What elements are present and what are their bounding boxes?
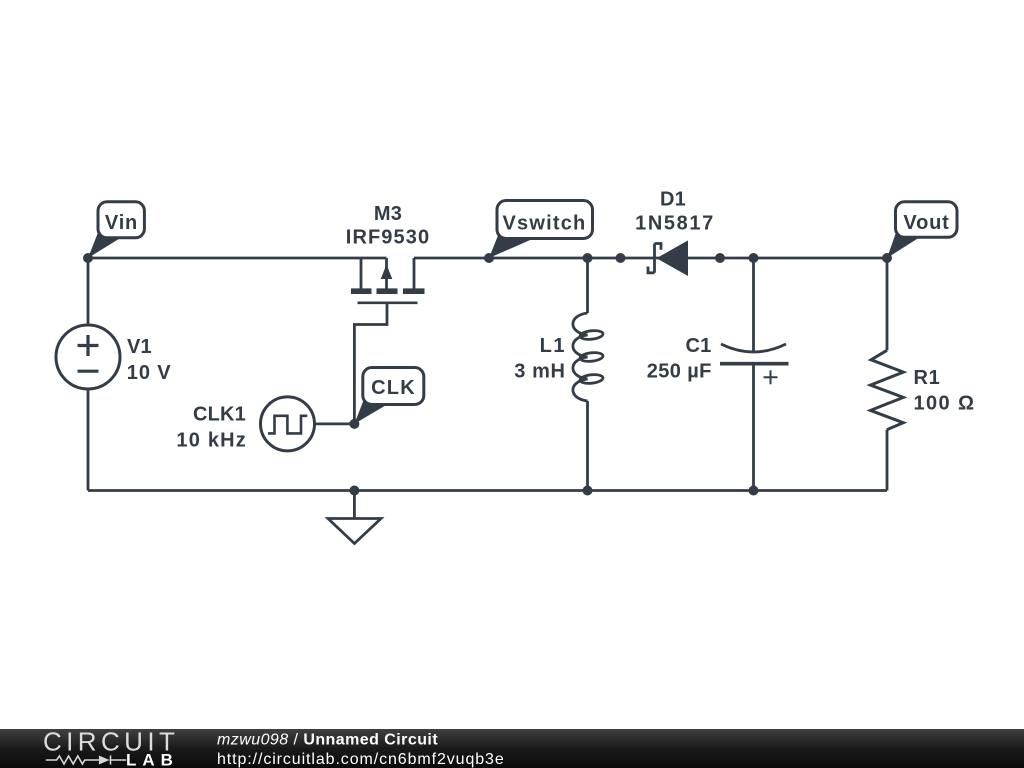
label C1 bbox=[647, 335, 712, 383]
wire top rail left (Vin node to M3 drain) bbox=[88, 257, 387, 260]
svg-text:CLK: CLK bbox=[371, 377, 416, 399]
wire L1 bottom lead bbox=[586, 401, 589, 491]
label M3 bbox=[346, 203, 430, 249]
inductor L1 bbox=[573, 313, 604, 401]
wire CLK1 output to CLK node bbox=[315, 422, 355, 425]
svg-text:http://circuitlab.com/cn6bmf2v: http://circuitlab.com/cn6bmf2vuqb3e bbox=[217, 751, 505, 768]
wire M3 gate to CLK node bbox=[354, 303, 387, 424]
clock source CLK1 bbox=[261, 397, 315, 451]
wire R1 top lead bbox=[886, 258, 889, 350]
wire V1 top lead bbox=[87, 258, 90, 325]
ground bbox=[328, 519, 381, 544]
node CLK flag bbox=[354, 368, 423, 424]
junction dot Vin bbox=[83, 253, 93, 263]
svg-text:3 mH: 3 mH bbox=[514, 360, 565, 382]
wire top rail right (M3 source to Vout node) bbox=[414, 257, 887, 260]
label D1 bbox=[635, 188, 715, 234]
junction dot CLK node bbox=[349, 419, 359, 429]
svg-text:Vswitch: Vswitch bbox=[503, 213, 587, 235]
capacitor C1 (polarized) bbox=[720, 344, 789, 384]
svg-text:100 Ω: 100 Ω bbox=[914, 393, 976, 415]
wire C1 bottom lead bbox=[752, 366, 755, 491]
junction dot L1 top bbox=[583, 253, 593, 263]
diode D1 (schottky) bbox=[648, 240, 688, 276]
junction dot C1 bottom bbox=[749, 486, 759, 496]
junction dot C1 top bbox=[749, 253, 759, 263]
resistor R1 bbox=[871, 350, 904, 429]
CircuitLab logo bbox=[0, 729, 560, 768]
junction dot ground bbox=[349, 486, 359, 496]
junction dot Vout bbox=[882, 253, 892, 263]
node Vin flag bbox=[88, 202, 144, 258]
wire ground stub bbox=[353, 491, 356, 519]
transistor Q M3 (PMOS) bbox=[351, 258, 425, 303]
junction dot L1 bottom bbox=[583, 486, 593, 496]
wire R1 bottom lead bbox=[886, 430, 889, 491]
voltage source V1 bbox=[56, 325, 120, 389]
svg-text:C1: C1 bbox=[686, 335, 712, 357]
svg-text:Vin: Vin bbox=[105, 212, 138, 234]
footer bar bbox=[0, 729, 1024, 768]
node Vswitch flag bbox=[489, 201, 593, 259]
svg-text:M3: M3 bbox=[374, 203, 402, 225]
svg-text:10 V: 10 V bbox=[127, 362, 172, 384]
svg-text:D1: D1 bbox=[660, 188, 686, 210]
label V1 value bbox=[127, 336, 172, 384]
svg-text:10 kHz: 10 kHz bbox=[176, 430, 247, 452]
svg-text:V1: V1 bbox=[127, 336, 152, 358]
junction dot D1 cathode bbox=[715, 253, 725, 263]
svg-text:R1: R1 bbox=[914, 367, 941, 389]
junction dot Vswitch bbox=[484, 253, 494, 263]
node Vout flag bbox=[887, 202, 957, 258]
junction dot D1 anode bbox=[616, 253, 626, 263]
label R1 bbox=[914, 367, 976, 415]
svg-text:LAB: LAB bbox=[126, 751, 179, 768]
label L1 bbox=[514, 335, 566, 383]
svg-text:L1: L1 bbox=[540, 335, 566, 357]
svg-text:mzwu098 / Unnamed Circuit: mzwu098 / Unnamed Circuit bbox=[217, 732, 438, 749]
M3 arrow bbox=[381, 265, 393, 280]
svg-text:1N5817: 1N5817 bbox=[635, 213, 715, 235]
wire bottom rail bbox=[88, 489, 887, 492]
label CLK1 value bbox=[176, 403, 247, 451]
svg-text:IRF9530: IRF9530 bbox=[346, 227, 430, 249]
svg-text:CLK1: CLK1 bbox=[193, 403, 246, 425]
svg-text:Vout: Vout bbox=[903, 212, 949, 234]
wire L1 top lead bbox=[586, 258, 589, 313]
svg-text:250 µF: 250 µF bbox=[647, 361, 712, 383]
wire C1 top lead bbox=[752, 258, 755, 352]
wire V1 bottom lead bbox=[87, 389, 90, 491]
